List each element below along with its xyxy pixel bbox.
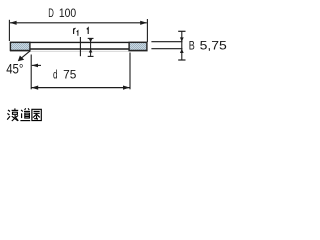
dim B upper arrowhead (down) xyxy=(180,37,184,41)
chamfer leader arrowhead xyxy=(18,56,24,62)
caption glyph dao (道) xyxy=(20,108,30,120)
svg-text:100: 100 xyxy=(59,6,76,20)
dim D 100 dimension line xyxy=(10,22,147,24)
label 1 xyxy=(87,28,88,34)
dim B bottom cap xyxy=(178,59,185,61)
dim d left arrowhead xyxy=(31,86,38,90)
svg-text:D: D xyxy=(48,6,54,20)
washer right cross-section xyxy=(129,42,147,50)
dim B top cap xyxy=(178,30,185,32)
dim d right arrowhead xyxy=(123,86,130,90)
dim d 75 dimension line xyxy=(31,87,130,89)
dim d right extension line xyxy=(129,53,131,90)
dim 1 lower arrowhead (up) xyxy=(89,49,93,53)
dim D left extension line xyxy=(8,20,10,41)
chamfer leader line xyxy=(20,51,30,59)
svg-text:d: d xyxy=(53,68,58,82)
svg-text:B: B xyxy=(189,39,195,53)
washer shadow line xyxy=(10,50,148,52)
washer left cross-section xyxy=(10,42,30,50)
dim B lower arrowhead (up) xyxy=(180,49,184,53)
washer bore bottom line xyxy=(30,48,130,50)
dim D right extension line xyxy=(146,19,148,42)
dim 1 vertical line with caps xyxy=(88,38,94,56)
label 45deg xyxy=(6,62,23,77)
dim d left extension line xyxy=(30,55,32,90)
svg-text:45°: 45° xyxy=(6,62,23,77)
dim 1 upper arrowhead (down) xyxy=(89,39,93,43)
label d 75 xyxy=(53,68,77,82)
dim D left arrowhead xyxy=(10,21,17,25)
svg-text:75: 75 xyxy=(63,68,76,82)
dim B vertical line xyxy=(181,31,183,60)
svg-text:5,75: 5,75 xyxy=(200,39,227,53)
r1 leader tick line xyxy=(79,37,81,56)
chamfer angle arrow (left) xyxy=(32,64,41,68)
caption glyph quan (圈) xyxy=(32,109,41,120)
dim D right arrowhead xyxy=(140,21,147,25)
caption glyph gun (滚) xyxy=(7,108,18,121)
washer top surface line xyxy=(10,41,148,43)
label r1 xyxy=(74,28,78,35)
label B 5,75 xyxy=(189,39,227,53)
dim B extension lines xyxy=(151,42,182,49)
label D 100 xyxy=(48,6,76,20)
